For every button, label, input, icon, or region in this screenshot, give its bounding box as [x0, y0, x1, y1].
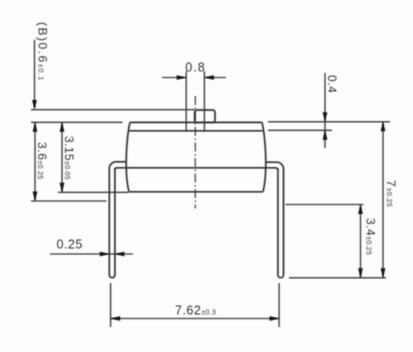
svg-text:0.25: 0.25 — [57, 238, 83, 252]
arrowhead 0.25 right pointing left — [115, 252, 125, 257]
arrowhead 0.4 upper pointing down — [323, 112, 328, 122]
tab on body top — [195, 110, 215, 123]
dimension line 3.4±0.25 — [360, 205, 362, 278]
arrowhead (B)0.6 down — [32, 100, 37, 110]
lead right outer bend and leg — [277, 162, 284, 278]
lead left outer bend and leg — [109, 162, 116, 278]
dimension line 7±0.25 — [382, 122, 384, 278]
lead left top surface — [116, 161, 127, 163]
svg-text:0.4: 0.4 — [325, 75, 339, 93]
arrowhead 7 up — [381, 122, 386, 132]
extension line: body top to left — [31, 121, 123, 123]
svg-text:0.8: 0.8 — [185, 61, 205, 75]
center line — [194, 96, 196, 209]
body top edge — [130, 121, 262, 123]
dimension line 0.25 — [50, 253, 133, 255]
body second edge — [129, 130, 262, 132]
extension line: 7.62 left — [110, 283, 112, 327]
arrowhead 3.4 down — [358, 268, 363, 278]
lead right top surface — [265, 161, 276, 163]
arrowhead 3.15 down — [60, 183, 65, 193]
arrowhead 3.6 up — [33, 122, 38, 132]
extension line: body second edge to right — [268, 129, 332, 131]
dimension line (B)0.6±0.1 — [34, 40, 36, 108]
extension line: tab top to left — [31, 109, 195, 111]
arrowhead 0.25 left pointing right — [100, 252, 110, 257]
extension line: 0.8 left — [185, 71, 187, 132]
arrowhead 3.15 up — [60, 122, 65, 132]
arrowhead 0.8 right pointing left — [204, 75, 214, 80]
extension line: 0.8 right — [203, 71, 205, 132]
dimension line 0.8 left segment — [162, 77, 186, 79]
extension line: right lead bend bottom — [286, 204, 364, 206]
extension line: body top to right — [268, 121, 390, 123]
dimension line 0.4 — [324, 73, 326, 148]
extension line: lead bend bottom to left — [31, 200, 107, 202]
extension line: lead tips bottom right — [289, 277, 386, 279]
arrowhead 3.4 up — [358, 205, 363, 215]
dimension line 7.62±0.3 — [111, 318, 280, 320]
extension line: body bottom to left — [58, 191, 129, 193]
body bottom edge — [129, 191, 263, 193]
dimension line 0.8 right segment — [204, 77, 226, 79]
dimension line 3.6±0.25 — [34, 122, 36, 201]
arrowhead 7.62 left — [111, 316, 121, 321]
lead underside line across body — [116, 167, 278, 169]
arrowhead 7 down — [381, 268, 386, 278]
body right side — [262, 122, 266, 191]
body left side — [126, 122, 130, 191]
dimension line 3.15±0.05 — [61, 122, 63, 192]
arrowhead 0.8 left pointing right — [177, 75, 187, 80]
arrowhead 3.6 down — [33, 192, 38, 202]
arrowhead 7.62 right — [270, 316, 280, 321]
extension line: 7.62 right — [278, 283, 280, 327]
arrowhead 0.4 lower pointing up — [323, 130, 328, 140]
